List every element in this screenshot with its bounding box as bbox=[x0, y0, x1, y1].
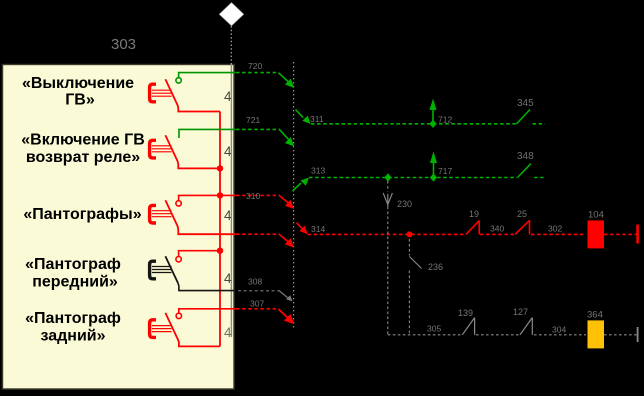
wire: diamond stem bbox=[230, 26, 232, 65]
wire 311 (green line 1 from connector) bbox=[296, 110, 546, 125]
wire segment bbox=[604, 233, 637, 235]
contact 25 bbox=[515, 220, 530, 234]
svg-text:308: 308 bbox=[248, 277, 262, 287]
svg-text:364: 364 bbox=[587, 310, 603, 321]
svg-text:720: 720 bbox=[248, 61, 262, 71]
branch arrow 712 bbox=[429, 99, 436, 129]
terminal circle S3 bbox=[176, 201, 181, 206]
contact 127 bbox=[520, 318, 532, 335]
wire 314 (red main line from connector) bbox=[297, 223, 465, 235]
svg-text:«Включение ГВ: «Включение ГВ bbox=[21, 132, 145, 149]
svg-text:возврат реле»: возврат реле» bbox=[26, 149, 140, 166]
terminal circle S4 bbox=[176, 257, 181, 262]
wire: S1 green output, inside panel bbox=[179, 73, 236, 78]
svg-text:«Пантографы»: «Пантографы» bbox=[23, 206, 141, 223]
svg-text:передний»: передний» bbox=[32, 274, 118, 291]
svg-text:4: 4 bbox=[224, 144, 232, 159]
svg-text:313: 313 bbox=[311, 166, 325, 176]
junction S3/bus bbox=[217, 192, 223, 198]
contact 236 branch bbox=[409, 239, 421, 335]
wire to connector (red, from S3 blade) bbox=[236, 234, 294, 247]
wire 308 (gray, to connector) bbox=[238, 291, 293, 302]
terminal bar (gray) bbox=[637, 327, 639, 342]
terminal circle S1 bbox=[176, 78, 181, 83]
svg-text:311: 311 bbox=[310, 114, 324, 124]
switch S3 "Пантографы" bbox=[150, 195, 236, 234]
switch S4 "Пантограф передний" (black) bbox=[150, 256, 236, 290]
svg-text:230: 230 bbox=[397, 199, 412, 209]
switch panel (keyboard) bbox=[3, 65, 235, 390]
svg-text:314: 314 bbox=[311, 224, 325, 234]
svg-text:717: 717 bbox=[438, 166, 452, 176]
svg-text:340: 340 bbox=[490, 224, 504, 234]
junction S2/bus bbox=[217, 165, 223, 171]
relay coil 104 (red box) bbox=[588, 220, 605, 248]
svg-text:104: 104 bbox=[588, 210, 604, 221]
svg-text:задний»: задний» bbox=[40, 328, 105, 345]
svg-text:25: 25 bbox=[517, 209, 527, 219]
wire segment bbox=[480, 233, 514, 235]
svg-text:4: 4 bbox=[224, 325, 232, 340]
wire segment bbox=[476, 334, 519, 336]
wire: S2 green output bbox=[179, 129, 236, 138]
svg-text:310: 310 bbox=[246, 191, 260, 201]
junction S4/bus bbox=[217, 248, 223, 254]
wire segment bbox=[534, 334, 586, 336]
switch S5 "Пантограф задний" bbox=[150, 309, 236, 347]
svg-text:712: 712 bbox=[438, 115, 452, 125]
svg-text:139: 139 bbox=[458, 308, 473, 318]
wire 313 (green line 2 from connector) bbox=[293, 152, 547, 192]
svg-text:127: 127 bbox=[513, 307, 528, 317]
contact 19 bbox=[466, 221, 479, 235]
switch S2 "Включение ГВ" bbox=[150, 135, 220, 168]
red supply bus bbox=[219, 112, 221, 347]
wire: S4 red input bbox=[179, 251, 220, 257]
plug 230 branch bbox=[383, 181, 392, 335]
svg-text:307: 307 bbox=[250, 299, 264, 309]
wire 720 (green, to connector) bbox=[236, 73, 294, 88]
svg-text:304: 304 bbox=[552, 325, 566, 335]
svg-text:236: 236 bbox=[428, 262, 443, 272]
switch S1 "Выключение ГВ" bbox=[150, 79, 220, 111]
svg-text:302: 302 bbox=[548, 224, 562, 234]
svg-text:ГВ»: ГВ» bbox=[65, 92, 95, 109]
svg-text:4: 4 bbox=[224, 271, 232, 286]
panel bus guide line bbox=[230, 65, 232, 338]
power source diamond bbox=[219, 3, 244, 26]
svg-text:«Пантограф: «Пантограф bbox=[25, 310, 121, 327]
svg-text:721: 721 bbox=[246, 115, 260, 125]
svg-text:305: 305 bbox=[427, 324, 441, 334]
wire 305 (gray bottom line) bbox=[388, 334, 461, 336]
connector dashed line bbox=[293, 62, 295, 329]
svg-text:«Выключение: «Выключение bbox=[22, 75, 134, 92]
contact 139 bbox=[462, 318, 474, 335]
terminal circle S5 bbox=[176, 313, 181, 318]
svg-text:4: 4 bbox=[224, 208, 232, 223]
svg-text:4: 4 bbox=[224, 89, 232, 104]
wire 310 (red, to connector) bbox=[236, 195, 294, 209]
svg-text:345: 345 bbox=[517, 98, 534, 109]
relay coil 364 (yellow box) bbox=[588, 320, 605, 348]
wire 307 (red, to connector) bbox=[236, 309, 294, 324]
svg-text:19: 19 bbox=[469, 209, 479, 219]
svg-text:303: 303 bbox=[111, 36, 136, 53]
svg-text:«Пантограф: «Пантограф bbox=[25, 256, 121, 273]
wire 721 (green, to connector) bbox=[236, 129, 294, 146]
wire segment bbox=[531, 233, 586, 235]
terminal bar bbox=[636, 225, 639, 244]
svg-text:348: 348 bbox=[517, 151, 534, 162]
junction node on wire 314 bbox=[407, 231, 413, 237]
wire segment bbox=[604, 334, 637, 336]
